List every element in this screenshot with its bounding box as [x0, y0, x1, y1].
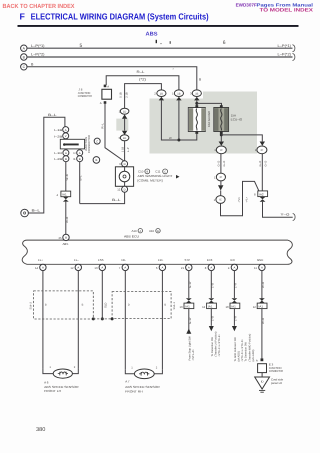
- shield box RH sensor (dashed): [112, 292, 176, 319]
- svg-text:A: A: [100, 101, 102, 105]
- svg-text:2 1B: 2 1B: [126, 92, 129, 98]
- small arrow mark right of label: [176, 175, 180, 179]
- wire FL- down to sensor LH: [77, 271, 79, 369]
- wire IA2 to Y-G continuation: [263, 202, 293, 218]
- ECU bottom pin DIL: [119, 258, 129, 271]
- oval connector 1B (row, no.2 feed): [154, 90, 166, 97]
- wire to oval 2 of left chain: [220, 154, 222, 173]
- svg-text:A: A: [79, 151, 81, 155]
- bowtie arrows above IA1 (GND): [259, 298, 265, 303]
- svg-text:EWD307F: EWD307F: [236, 3, 257, 8]
- option shading region (main block): [150, 92, 258, 154]
- svg-text:D: D: [128, 304, 130, 307]
- svg-text:To ADD Indicator SW: To ADD Indicator SW: [234, 337, 237, 362]
- continuation brace Y-G: [293, 213, 295, 220]
- header link: TO MODEL INDEX: [260, 8, 314, 14]
- ECU bottom pin EX3: [205, 258, 215, 271]
- svg-text:12: 12: [253, 305, 257, 309]
- svg-text:W–B: W–B: [261, 318, 265, 324]
- ECU bottom pin FR+: [156, 258, 166, 271]
- svg-text:ECU–IG: ECU–IG: [231, 118, 243, 122]
- bowtie arrows above IA1 (STP): [186, 298, 192, 303]
- svg-text:To Detention SW: To Detention SW: [211, 336, 214, 356]
- wire IA1 to ECU top pin: [65, 202, 69, 235]
- wire left chain loop to IA2: [221, 181, 259, 215]
- wire fuse1 output to ovals 1 and 2: [161, 100, 196, 141]
- svg-text:(Transfer 4WD Position): (Transfer 4WD Position): [248, 334, 251, 362]
- E3 junction connector pin A: [256, 358, 263, 362]
- J/C upper pin I-1B: [54, 127, 69, 133]
- svg-text:1B: 1B: [160, 92, 163, 95]
- svg-text:panel LH: panel LH: [271, 381, 282, 385]
- svg-text:B–L: B–L: [32, 208, 41, 212]
- header link: BACK TO CHAPTER INDEX: [3, 3, 75, 10]
- connector IA1 (GND): [253, 303, 267, 309]
- svg-text:W–B: W–B: [65, 174, 69, 180]
- svg-text:B: B: [74, 157, 76, 161]
- connector IA2: [254, 191, 268, 197]
- svg-text:C10: C10: [138, 170, 144, 174]
- ABS ECU reference labels A10: [132, 229, 161, 234]
- ECU bottom pin FL+: [35, 258, 46, 271]
- svg-text:A: A: [107, 84, 109, 88]
- svg-text:To Detention SW: To Detention SW: [245, 341, 248, 361]
- bowtie arrows above IA1 (EXI): [232, 298, 238, 303]
- rotated label To ADD Indicator SW: [234, 334, 255, 362]
- svg-text:W: W: [169, 136, 172, 140]
- svg-text:G–O: G–O: [223, 161, 226, 167]
- node A (connector circle): [21, 45, 27, 51]
- svg-text:A: A: [42, 266, 44, 270]
- svg-text:B–L: B–L: [112, 198, 121, 202]
- svg-text:14: 14: [35, 266, 39, 270]
- J/C lower right pin B: [74, 156, 83, 162]
- svg-text:IA1: IA1: [62, 193, 67, 197]
- svg-text:6: 6: [223, 40, 226, 46]
- shield bus junction dots: [92, 317, 114, 320]
- svg-text:1B: 1B: [177, 92, 180, 95]
- svg-text:A: A: [233, 266, 235, 270]
- wire bus B (L-P *2): [27, 53, 293, 58]
- svg-text:ELECTRICAL WIRING DIAGRAM (Sys: ELECTRICAL WIRING DIAGRAM (System Circui…: [31, 11, 209, 21]
- svg-text:From Stop Light SW: From Stop Light SW: [188, 336, 191, 361]
- continuation brace wire B: [293, 53, 295, 60]
- svg-text:13: 13: [94, 266, 98, 270]
- svg-text:S14–1: S14–1: [173, 301, 176, 309]
- svg-text:SLD: SLD: [104, 303, 108, 308]
- ECU top pin 25 (warning light feed): [59, 234, 70, 246]
- svg-text:<ST1–4>: <ST1–4>: [192, 349, 195, 360]
- svg-text:L–R: L–R: [233, 283, 237, 288]
- arrow down to ADD indicator SW: [232, 326, 237, 331]
- node D (connector circle): [21, 209, 29, 217]
- svg-text:12: 12: [70, 266, 74, 270]
- rotated label From Stop Light SW: [188, 336, 195, 361]
- oval connector 1B (row, no.3 feed): [190, 90, 201, 97]
- arrow into shading below oval: [194, 97, 199, 101]
- ground triangle ID: [255, 373, 270, 389]
- svg-text:BACK TO CHAPTER INDEX: BACK TO CHAPTER INDEX: [3, 3, 75, 10]
- svg-text:(w/ ADD): (w/ ADD): [238, 351, 241, 362]
- junction block J8 label: [78, 87, 92, 98]
- svg-text:A 6: A 6: [44, 381, 49, 385]
- svg-text:A: A: [65, 128, 67, 132]
- svg-text:1D: 1D: [123, 110, 126, 113]
- svg-text:A: A: [124, 266, 126, 270]
- svg-text:C: C: [164, 171, 166, 174]
- header link: EWD307F Pages From Manual: [236, 3, 313, 8]
- svg-text:ABS SPEED SENSOR: ABS SPEED SENSOR: [125, 385, 160, 389]
- J/C lower pin I-2B: [54, 156, 69, 162]
- bowtie arrows above IA1 (EX3): [208, 298, 214, 303]
- warning light bottom pin 12: [117, 186, 127, 192]
- reference circle C (floating): [94, 138, 100, 144]
- svg-text:12: 12: [202, 305, 206, 309]
- wire FSS down to shield bus: [102, 271, 107, 319]
- ECU bottom pin STP: [181, 258, 192, 271]
- arrow down to detention SW: [209, 326, 214, 331]
- svg-text:13: 13: [180, 305, 184, 309]
- bowtie arrows below IA1: [63, 197, 69, 202]
- svg-text:12: 12: [117, 188, 121, 192]
- oval connector IC (left, below fuse2): [214, 146, 226, 154]
- svg-text:IC: IC: [220, 176, 223, 179]
- svg-text:I–2B: I–2B: [54, 134, 63, 138]
- svg-text:<2T3–1>+<2T3–4>: <2T3–1>+<2T3–4>: [218, 334, 221, 357]
- svg-text:L–R: L–R: [233, 316, 237, 321]
- svg-text:11: 11: [254, 266, 257, 270]
- svg-text:FR+: FR+: [158, 258, 164, 262]
- wire DIL down to sensor RH: [124, 271, 126, 370]
- svg-text:Pages From Manual: Pages From Manual: [257, 3, 313, 8]
- oval connector (left chain mid): [214, 173, 225, 181]
- svg-text:G–O: G–O: [259, 161, 262, 167]
- connector IA1 (EX3): [202, 303, 216, 309]
- svg-text:<2T3–5>+<2T3–3>: <2T3–5>+<2T3–3>: [241, 339, 244, 362]
- svg-text:A: A: [261, 266, 263, 270]
- ECU bottom pin FL-: [70, 258, 81, 271]
- ABS ECU body outline: [22, 240, 292, 264]
- oval connector IC (right branch): [255, 146, 267, 154]
- wire EXI with color label: [233, 271, 237, 298]
- E3 junction connector box: [258, 364, 267, 373]
- wire STP to stop light arrow: [188, 309, 192, 334]
- wire (*2) middle chain feed: [125, 77, 162, 108]
- svg-text:G–O: G–O: [264, 161, 267, 167]
- svg-text:380: 380: [36, 427, 45, 433]
- wire EXI down to arrow: [233, 309, 237, 326]
- rotated label To Detention SW L4: [211, 332, 221, 357]
- svg-text:B: B: [82, 303, 84, 306]
- svg-text:A: A: [161, 266, 163, 270]
- svg-text:Y–G: Y–G: [281, 213, 291, 217]
- J/C junction connector box with bus bar: [60, 139, 84, 149]
- svg-text:S14–2: S14–2: [30, 301, 33, 309]
- svg-text:TO MODEL INDEX: TO MODEL INDEX: [260, 8, 314, 14]
- svg-text:A: A: [210, 266, 212, 270]
- header underline rule: [18, 25, 299, 27]
- svg-text:(w/o ADD): (w/o ADD): [252, 350, 255, 362]
- svg-text:(Transfer L4 Position): (Transfer L4 Position): [214, 332, 217, 357]
- svg-text:A: A: [188, 266, 190, 270]
- oval connector 1B (row, no.1 feed): [172, 90, 183, 97]
- svg-text:I–2B: I–2B: [54, 157, 63, 161]
- svg-text:21: 21: [181, 266, 185, 270]
- svg-text:5: 5: [80, 43, 83, 49]
- arrow up from stop light SW: [186, 329, 191, 334]
- J/C rotated label JUNCTION CONNECTOR: [84, 135, 91, 153]
- ECU bottom pin FSS: [94, 258, 105, 271]
- svg-text:CONNECTOR: CONNECTOR: [87, 135, 91, 153]
- wire EX3 down to arrow: [210, 309, 214, 326]
- fuse GAUGE 10A: [188, 105, 205, 134]
- left chain rotated labels: [218, 161, 227, 167]
- svg-text:G–O: G–O: [218, 161, 221, 167]
- svg-text:B: B: [65, 236, 67, 240]
- warning light name label: [138, 174, 173, 182]
- ECU bottom pin GND: [254, 258, 265, 271]
- system title: ABS: [146, 31, 158, 37]
- arrow into shading below oval: [159, 97, 164, 101]
- svg-text:1 1B: 1 1B: [121, 147, 124, 153]
- connector IA1 (left): [57, 191, 71, 197]
- fuse ECU-IG label: [231, 114, 243, 122]
- svg-text:ABS: ABS: [146, 31, 158, 37]
- svg-text:(*2): (*2): [139, 77, 146, 81]
- ABS speed sensor front RH: [125, 367, 162, 379]
- svg-text:ABS: ABS: [63, 242, 69, 246]
- svg-text:ABS WARNING LIGHT: ABS WARNING LIGHT: [138, 174, 173, 178]
- svg-text:A: A: [256, 358, 258, 362]
- svg-text:FL–: FL–: [74, 258, 79, 262]
- wire R-L from junction block to oval 2: [106, 70, 179, 90]
- svg-text:B: B: [164, 304, 166, 307]
- arrow down to oval IC right: [260, 142, 265, 146]
- svg-text:IC: IC: [261, 149, 264, 152]
- ABS speed sensor front LH: [43, 366, 78, 378]
- svg-text:B–L: B–L: [79, 175, 83, 181]
- svg-text:G–W: G–W: [188, 317, 192, 324]
- svg-text:R–L: R–L: [137, 70, 145, 74]
- arrow into shading below oval: [176, 97, 181, 101]
- svg-text:A: A: [101, 266, 103, 270]
- J/C lower right pin D: [74, 150, 83, 156]
- wire through warning light box: [124, 167, 126, 187]
- svg-text:IA1: IA1: [231, 305, 236, 309]
- wire C (B) to fuse feed: [27, 62, 201, 90]
- svg-text:ABS ECU: ABS ECU: [124, 234, 139, 238]
- reference circle B (floating): [93, 157, 100, 164]
- svg-text:FRONT RH: FRONT RH: [125, 390, 143, 394]
- svg-text:L–B: L–B: [210, 316, 214, 321]
- svg-text:1B: 1B: [195, 92, 198, 95]
- bowtie arrows below IA2: [260, 197, 266, 202]
- svg-text:G–W: G–W: [188, 281, 192, 288]
- svg-text:L–B: L–B: [210, 283, 214, 288]
- svg-text:EXI: EXI: [231, 258, 236, 262]
- wire J/C right output down to B-L run: [79, 162, 83, 204]
- svg-text:10: 10: [226, 305, 230, 309]
- junction dot above fuse 1: [195, 102, 198, 105]
- wire oval to warn light pin + rotated labels: [121, 141, 130, 161]
- svg-text:CONNECTOR: CONNECTOR: [269, 369, 283, 373]
- svg-text:C: C: [96, 139, 98, 143]
- svg-text:L–P(*2): L–P(*2): [278, 53, 292, 57]
- sensor LH name label: [44, 381, 79, 394]
- svg-text:D: D: [124, 162, 126, 166]
- E3 junction connector label: [269, 362, 283, 373]
- wire STP with color label: [188, 271, 192, 298]
- svg-text:IA1: IA1: [259, 305, 264, 309]
- warning light reference labels C10 C11: [138, 169, 168, 174]
- svg-text:R–L: R–L: [101, 123, 105, 129]
- oval connector (left chain bottom): [214, 191, 225, 204]
- ABS warning light (comb. meter) box: [115, 167, 133, 187]
- svg-text:<*2>: <*2>: [238, 196, 241, 202]
- svg-text:A10: A10: [149, 229, 155, 233]
- svg-text:V: V: [65, 134, 67, 138]
- junction block J8 box: [102, 89, 112, 99]
- svg-text:[COMB. METER]: [COMB. METER]: [138, 179, 163, 183]
- sensor RH name label: [125, 380, 160, 394]
- svg-text:IA1: IA1: [185, 305, 190, 309]
- wire fuse2 output junction: [220, 133, 262, 141]
- ground hatch marks: [259, 390, 265, 392]
- junction block J8 bottom pin A: [100, 101, 106, 105]
- svg-text:EX3: EX3: [207, 258, 213, 262]
- svg-text:FSS: FSS: [98, 258, 104, 262]
- svg-text:C11: C11: [155, 170, 160, 174]
- svg-text:L–P(*1): L–P(*1): [31, 44, 45, 48]
- ECU bottom pin EXI: [228, 258, 238, 271]
- svg-text:CONNECTOR: CONNECTOR: [78, 94, 92, 98]
- continuation brace wire A: [293, 45, 295, 52]
- svg-text:B: B: [79, 157, 81, 161]
- svg-text:IC: IC: [220, 149, 223, 152]
- svg-text:IA2: IA2: [259, 193, 264, 197]
- svg-text:1D: 1D: [123, 137, 126, 140]
- ground location label: [271, 378, 284, 386]
- option shading strip (middle chain): [116, 119, 128, 131]
- node B (connector circle): [21, 54, 27, 60]
- svg-text:B: B: [65, 157, 67, 161]
- wire FL+ down to sensor LH: [42, 271, 44, 369]
- wire bus A (L-P *1): [27, 40, 293, 49]
- bulb symbol: [119, 171, 130, 182]
- svg-text:F: F: [20, 11, 26, 21]
- connector IA1 (STP): [180, 303, 194, 309]
- svg-text:D: D: [124, 188, 126, 192]
- svg-text:B–L: B–L: [48, 113, 57, 117]
- svg-text:W–B: W–B: [65, 217, 69, 223]
- svg-text:A10: A10: [132, 229, 138, 233]
- arrow down above oval (shading boundary): [122, 131, 127, 135]
- svg-text:STP: STP: [185, 258, 191, 262]
- wire junction to fuse 2 top: [197, 103, 222, 107]
- wire oval3 to fuse junction dot: [196, 100, 198, 107]
- svg-text:W–B: W–B: [261, 282, 265, 288]
- wire B-L from node D up-over to J/C top: [28, 113, 65, 213]
- svg-text:B: B: [199, 78, 201, 82]
- wire B-L warn light bottom to J/C: [80, 192, 125, 203]
- svg-text:IA1: IA1: [208, 305, 213, 309]
- svg-text:FL+: FL+: [38, 258, 43, 262]
- arrow up below oval (shading boundary): [122, 114, 127, 118]
- svg-text:10A GAUGE: 10A GAUGE: [207, 111, 211, 127]
- svg-text:FRONT LH: FRONT LH: [44, 389, 61, 393]
- wire EX3 with color label: [210, 271, 214, 298]
- wire right chain down to IA2: [259, 154, 268, 191]
- svg-text:A: A: [65, 151, 67, 155]
- oval connector 1D (mid chain lower): [119, 135, 129, 141]
- arrow down between chain ovals: [218, 185, 223, 190]
- svg-text:IC: IC: [219, 199, 222, 202]
- svg-text:5 1B: 5 1B: [119, 92, 122, 98]
- header title: F ELECTRICAL WIRING DIAGRAM (System Circuits): [20, 11, 209, 21]
- oval connector 1B (mid chain upper): [119, 108, 129, 114]
- svg-text:L–P(*1): L–P(*1): [278, 44, 292, 48]
- connector IA1 (EXI): [226, 303, 240, 309]
- wire FR+ down to sensor RH: [161, 271, 163, 370]
- J/C lower pin I-1D: [54, 150, 69, 156]
- wire from J8 down then diagonal to warn light pin: [101, 104, 125, 162]
- node C (connector circle): [21, 64, 27, 70]
- svg-text:DIL: DIL: [122, 258, 127, 262]
- arrow down to oval IC left: [219, 142, 224, 146]
- wire GND down to junction connector: [261, 271, 265, 359]
- svg-text:B: B: [45, 303, 47, 306]
- warning light top pin 9: [119, 161, 127, 167]
- svg-text:ID: ID: [261, 379, 264, 383]
- svg-text:B: B: [95, 158, 97, 162]
- svg-text:A 7: A 7: [125, 380, 130, 384]
- shield box LH sensor (dashed): [30, 291, 94, 319]
- svg-text:I–1D: I–1D: [54, 151, 63, 155]
- svg-text:A: A: [77, 266, 79, 270]
- fuse ECU-IG 15A: [214, 105, 229, 134]
- svg-text:D: D: [74, 151, 76, 155]
- svg-text:GND: GND: [257, 258, 263, 262]
- mid chain rotated pin labels: [119, 92, 128, 98]
- svg-text:25: 25: [59, 236, 63, 240]
- wire J/C left output down to ECU pin: [65, 162, 69, 191]
- svg-text:L–P: L–P: [127, 147, 130, 152]
- footnote tick marks under ABS: [156, 40, 171, 44]
- J/C upper pin I-2B: [54, 133, 69, 139]
- wire through shaded strip: [124, 119, 126, 131]
- svg-text:<*1>: <*1>: [246, 196, 249, 202]
- junction block J8 top pin A: [104, 84, 110, 88]
- svg-text:L–P(*2): L–P(*2): [31, 53, 45, 57]
- svg-text:I–1B: I–1B: [54, 128, 63, 132]
